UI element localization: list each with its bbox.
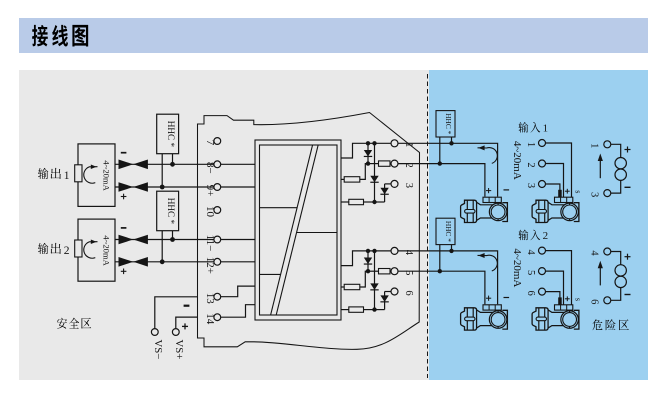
series resistor to terminal 5 (368, 269, 391, 274)
terminal 2 circle (391, 160, 398, 167)
output 2 4~20mA label (101, 235, 111, 266)
terminal 5 label (403, 270, 414, 275)
svg-text:6: 6 (403, 290, 414, 295)
pressure transmitter T3 (input 2 HART) (461, 305, 508, 330)
terminal 7 circle (214, 138, 221, 145)
svg-text:1: 1 (525, 142, 536, 147)
output 1 load loop (78, 144, 115, 207)
alt transmitter plus label ch1 (565, 189, 570, 194)
wire alt 6 to transmitter ground tab (546, 292, 560, 298)
wire VS- to terminal 13 (155, 297, 198, 329)
HART communicator HHC box 2 (safe side) (157, 191, 179, 231)
svg-text:HHC *: HHC * (444, 221, 453, 242)
input 1 4~20mA label (511, 141, 523, 180)
VS- label (152, 340, 164, 360)
svg-text:1: 1 (64, 170, 70, 182)
safe zone label 安全区 (57, 318, 91, 329)
wire alt 3 to transmitter ground tab (546, 184, 560, 190)
clamp diode D1b on rail drop (370, 143, 378, 202)
svg-text:6: 6 (525, 290, 536, 295)
wire terminal 1 into hazardous area (398, 143, 498, 196)
wire terminal 11 to block (221, 239, 255, 241)
junction dot rail A ch2 (366, 249, 370, 253)
current source plus label ch2 (625, 254, 631, 260)
terminal 1 label (403, 142, 414, 147)
wire terminal 13 to block (221, 286, 255, 297)
transmitter plus label ch2 (486, 296, 491, 301)
isolation block inner box (260, 145, 338, 315)
wire 1 to current source (611, 144, 621, 157)
wire terminal 4 into hazardous area (398, 251, 498, 304)
svg-text:7: 7 (204, 140, 216, 146)
current source terminal 4 circle (588, 248, 611, 256)
junction dot rail B ch2 (372, 249, 376, 253)
svg-text:4: 4 (588, 250, 599, 256)
svg-text:1: 1 (588, 143, 599, 148)
svg-text:4: 4 (525, 249, 536, 255)
transmitter plus label ch1 (486, 188, 491, 193)
svg-text:VS−: VS− (152, 340, 164, 360)
HHC hazard ch1 left lead (439, 137, 441, 164)
alt transmitter signal label ch1 (574, 190, 583, 193)
wire node to feedback resistor ch2 (360, 271, 368, 287)
pressure transmitter T2 (input 1 alt) (532, 197, 579, 222)
svg-text:2: 2 (543, 230, 549, 242)
svg-text:11−: 11− (204, 235, 216, 252)
input 1 label 输入1 (518, 122, 548, 134)
alt transmitter plus label ch2 (565, 296, 570, 301)
feedback resistor ch1 (344, 177, 360, 182)
clamp diode D2b on rail drop (370, 251, 378, 310)
terminal 11 label (204, 235, 216, 252)
loop current arrow ch2 (478, 253, 498, 271)
current source symbol ch1 (two circles) (615, 158, 626, 181)
output 2 current direction arrow (84, 239, 98, 258)
wire alt 2 to transmitter plus (546, 164, 564, 198)
junction dot HHC1 positive (160, 185, 165, 190)
alt terminal 6 circle (525, 288, 546, 296)
VS+ terminal circle (172, 329, 179, 336)
transmitter minus label ch2 (504, 297, 510, 299)
wire alt 5 to transmitter plus (546, 271, 564, 305)
output 2 label 输出2 (38, 243, 70, 257)
terminal 6 circle (391, 288, 398, 295)
junction dot ch1 ta (449, 141, 453, 145)
svg-text:13: 13 (204, 293, 216, 305)
current source terminal 1 circle (588, 141, 611, 149)
junction dot rail B ch1 (372, 141, 376, 145)
wire terminal 5 into hazardous area (398, 271, 485, 304)
output 1 label 输出1 (38, 168, 70, 182)
output 1 minus polarity (121, 152, 127, 154)
svg-text:3: 3 (403, 183, 414, 188)
wire bottom node to diode D1c (375, 201, 385, 203)
terminal 14 label (204, 313, 216, 325)
wire bowtie to terminal row 11 (148, 239, 214, 241)
svg-text:6: 6 (588, 299, 599, 304)
svg-text:4~20mA: 4~20mA (511, 141, 523, 180)
svg-text:3: 3 (588, 192, 599, 197)
junction dot ch2 tb (438, 269, 442, 273)
input 2 4~20mA label (511, 248, 523, 287)
alt terminal 3 circle (525, 181, 546, 189)
clamp diode D2a (364, 251, 372, 271)
current source minus label ch2 (625, 294, 631, 296)
junction dot HHC2 positive (160, 259, 165, 264)
sense resistor ch1 (341, 199, 375, 204)
wire terminal 14 to block (221, 305, 255, 318)
wire output2 positive row (115, 261, 148, 263)
isolator module outline (198, 113, 420, 350)
terminal 5 circle (391, 268, 398, 275)
terminal 7 label (204, 140, 216, 146)
alt transmitter signal label ch2 (574, 298, 583, 301)
wire 4 to current source (611, 252, 621, 265)
alt terminal 5 circle (525, 268, 546, 276)
polarity bowtie on positive row 2 (119, 257, 148, 267)
output 2 minus polarity (121, 227, 127, 229)
HART communicator HHC box (hazard side) ch1 (436, 111, 455, 137)
current direction up arrow ch1 (598, 154, 603, 179)
current source terminal 6 circle (588, 297, 611, 305)
svg-text:5: 5 (525, 270, 536, 275)
HHC hazard ch1 right lead (451, 137, 453, 143)
svg-text:1: 1 (543, 122, 549, 134)
terminal 10 circle (214, 207, 221, 214)
current source symbol ch2 (two circles) (615, 265, 626, 288)
wire block to output rail ch2 (341, 251, 391, 266)
wire bowtie to terminal row 12 (148, 261, 214, 263)
polarity bowtie on positive row 1 (119, 182, 148, 192)
terminal 9 circle (214, 184, 221, 191)
wire bowtie to terminal row 9 (148, 186, 214, 188)
svg-text:12+: 12+ (204, 257, 216, 274)
alt terminal 1 circle (525, 140, 546, 148)
output 1 4~20mA label (101, 160, 111, 191)
junction dot ch2 ta (449, 249, 453, 253)
terminal 13 label (204, 293, 216, 305)
terminal 6 label (403, 290, 414, 295)
transmitter minus label ch1 (504, 189, 510, 191)
galvanic isolation diagonal band (271, 145, 319, 315)
hazardous zone label 危险区 (593, 319, 629, 330)
terminal 1 circle (391, 140, 398, 147)
safe zone background (gray) (19, 70, 648, 380)
HART communicator HHC box (hazard side) ch2 (436, 218, 455, 244)
wire output1 negative row (115, 163, 148, 165)
svg-text:14: 14 (204, 313, 216, 325)
node dot ch2 terminal 5 row (366, 269, 370, 273)
wire block to output rail ch1 (341, 143, 391, 158)
output 1 load resistor (75, 165, 82, 182)
HHC hazard ch2 right lead (451, 245, 453, 251)
title bar (19, 18, 648, 53)
svg-text:9+: 9+ (204, 185, 216, 197)
wire output2 negative row (115, 239, 148, 241)
clamp diode D1c to terminal 3 (380, 184, 390, 202)
block left divider upper (260, 207, 298, 209)
current source plus label ch1 (625, 147, 631, 153)
terminal 13 circle (214, 293, 221, 300)
isolation block outer box (255, 140, 341, 320)
hazardous zone background (blue) (429, 70, 648, 380)
output 1 current direction arrow (84, 164, 98, 183)
wire feedback resistor to block ch1 (341, 178, 344, 180)
svg-text:4~20mA: 4~20mA (511, 248, 523, 287)
junction dot HHC1 negative (170, 162, 175, 167)
terminal 12 label (204, 257, 216, 274)
output 1 plus polarity (121, 194, 127, 200)
supply plus polarity (182, 323, 188, 329)
terminal 4 circle (391, 247, 398, 254)
wire VS+ to terminal 14 (176, 317, 198, 329)
svg-text:4~20mA: 4~20mA (101, 160, 111, 191)
svg-text:VS+: VS+ (173, 340, 185, 360)
junction dot ch1 tb (438, 161, 442, 165)
transmitter ground tab ch1 (558, 190, 562, 197)
junction dot HHC2 negative (170, 237, 175, 242)
clamp diode D1a (364, 143, 372, 163)
svg-text:10: 10 (204, 206, 216, 218)
terminal 3 circle (391, 180, 398, 187)
sense resistor ch2 (341, 307, 375, 312)
alt terminal 2 circle (525, 160, 546, 168)
wire output1 positive row (115, 186, 148, 188)
polarity bowtie on negative row 1 (119, 160, 148, 170)
terminal 12 circle (214, 258, 221, 265)
wire node to feedback resistor ch1 (360, 164, 368, 180)
svg-text:s: s (574, 190, 583, 193)
pressure transmitter T4 (input 2 alt) (532, 305, 579, 330)
wire current source to 6 (611, 288, 621, 301)
node dot ch1 terminal 2 row (366, 161, 370, 165)
wire bottom node to diode D2c (375, 309, 385, 311)
HHC2 left lead to positive row (161, 231, 163, 262)
series resistor to terminal 2 (368, 161, 391, 166)
input 2 label 输入2 (518, 230, 548, 242)
HHC hazard ch2 left lead (439, 245, 441, 272)
terminal 3 label (403, 183, 414, 188)
wire terminal 2 into hazardous area (398, 164, 485, 197)
junction dot rail A ch1 (366, 141, 370, 145)
wire bowtie to terminal row 8 (148, 163, 214, 165)
terminal 4 label (403, 250, 414, 256)
current source terminal 3 circle (588, 190, 611, 198)
svg-text:HHC *: HHC * (166, 121, 176, 148)
svg-text:HHC *: HHC * (166, 198, 176, 225)
wire terminal 9 to block (221, 186, 255, 188)
svg-text:2: 2 (64, 245, 70, 257)
svg-text:s: s (574, 298, 583, 301)
HART communicator HHC box 1 (safe side) (157, 114, 179, 154)
HHC2 right lead to negative row (172, 231, 174, 240)
svg-text:HHC *: HHC * (444, 113, 453, 134)
terminal 11 circle (214, 236, 221, 243)
supply minus polarity (184, 305, 190, 307)
wire terminal 12 to block (221, 261, 255, 263)
output 2 load loop (78, 219, 115, 281)
output 2 plus polarity (121, 269, 127, 275)
polarity bowtie on negative row 2 (119, 235, 148, 245)
wire terminal 8 to block (221, 163, 255, 165)
wire current source to 3 (611, 180, 621, 193)
transmitter ground tab ch2 (558, 297, 562, 304)
node dot ch1 bottom (372, 200, 376, 204)
feedback resistor ch2 (344, 284, 360, 289)
VS- terminal circle (151, 329, 158, 336)
terminal 9 label (204, 185, 216, 197)
title text 接线图 (32, 25, 88, 47)
block left divider lower (260, 273, 281, 275)
output 2 load resistor (75, 240, 82, 257)
alt terminal 4 circle (525, 247, 546, 255)
HHC1 left lead to positive row (161, 154, 163, 187)
loop current arrow ch1 (478, 145, 498, 163)
wire feedback resistor to block ch2 (341, 286, 344, 288)
wire alt 4 to transmitter signal (546, 251, 572, 305)
svg-text:8−: 8− (204, 162, 216, 174)
current source minus label ch1 (625, 186, 631, 188)
safe/hazard boundary dashed line (427, 74, 429, 378)
terminal 10 label (204, 206, 216, 218)
terminal 8 circle (214, 161, 221, 168)
svg-text:3: 3 (525, 183, 536, 188)
block right divider (297, 232, 337, 234)
pressure transmitter T1 (input 1 HART) (461, 197, 508, 222)
wire alt 1 to transmitter signal (546, 143, 572, 197)
svg-text:2: 2 (525, 162, 536, 167)
node dot ch2 bottom (372, 307, 376, 311)
terminal 14 circle (214, 314, 221, 321)
terminal 8 label (204, 162, 216, 174)
HHC1 right lead to negative row (172, 154, 174, 165)
terminal 2 label (403, 162, 414, 167)
VS+ label (173, 340, 185, 360)
svg-text:4~20mA: 4~20mA (101, 235, 111, 266)
current direction up arrow ch2 (598, 261, 603, 286)
clamp diode D2c to terminal 6 (380, 292, 390, 310)
